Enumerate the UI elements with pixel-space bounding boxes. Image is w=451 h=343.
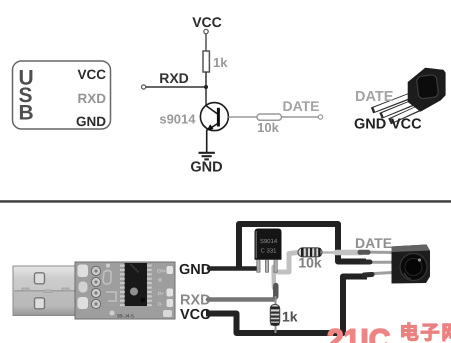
resistor R4 10k (photo) xyxy=(298,248,336,257)
USB plug shell (photo) xyxy=(13,266,75,316)
terminal RXD xyxy=(142,85,146,89)
wire RXD run (gray) xyxy=(208,287,276,300)
svg-text:VCC: VCC xyxy=(192,14,222,30)
svg-text:GND: GND xyxy=(76,114,106,129)
svg-text:电子网: 电子网 xyxy=(400,322,451,343)
transistor Q2 (photo, TO-92) xyxy=(255,229,282,273)
svg-text:D-: D- xyxy=(158,302,163,307)
terminal VCC xyxy=(204,29,208,33)
svg-text:VCC: VCC xyxy=(391,117,422,133)
USB connector block U-USB xyxy=(13,61,111,129)
wire RXD to node xyxy=(146,86,206,88)
wire R1 to collector node xyxy=(205,72,207,106)
resistor R1 1k xyxy=(203,51,209,72)
resistor R3 1k (photo) xyxy=(270,296,279,333)
svg-text:1k: 1k xyxy=(213,55,228,70)
wire VCC to R1 xyxy=(205,34,207,51)
IC U3 xyxy=(120,263,152,306)
silver wire DATE (photo) xyxy=(336,250,361,256)
svg-text:B: B xyxy=(19,102,34,125)
svg-text:21IC: 21IC xyxy=(327,324,390,343)
wire RXD end cap to Q2 xyxy=(273,286,278,297)
svg-text:GND: GND xyxy=(354,117,386,133)
svg-text:D+: D+ xyxy=(158,291,164,296)
IR receiver U2 (drawing) xyxy=(375,69,445,121)
svg-text:1k: 1k xyxy=(282,309,298,325)
svg-text:DATE: DATE xyxy=(355,89,394,105)
svg-text:GND: GND xyxy=(190,160,222,176)
terminal DATE xyxy=(318,115,322,119)
ground symbol xyxy=(199,153,215,160)
transistor Q1 s9014 xyxy=(200,103,228,152)
svg-text:RXD: RXD xyxy=(77,91,106,106)
IR receiver U4 (photo) xyxy=(360,245,430,284)
svg-text:s9014: s9014 xyxy=(159,112,196,127)
svg-text:CH+: CH+ xyxy=(157,269,166,274)
junction node RXD/collector xyxy=(204,85,208,89)
resistor R2 10k xyxy=(257,114,282,120)
svg-text:S9014: S9014 xyxy=(260,238,278,245)
wire VCC run xyxy=(206,277,367,334)
PCB (photo) xyxy=(75,262,175,320)
svg-text:99-J4-5: 99-J4-5 xyxy=(117,314,134,320)
svg-text:DATE: DATE xyxy=(282,98,319,114)
wire GND riser xyxy=(239,224,366,269)
wire GND run to Q2 emitter xyxy=(209,266,258,271)
wire base to R2 xyxy=(228,116,257,118)
silver drop Q2 collector to RXD node xyxy=(271,267,276,288)
svg-text:VCC: VCC xyxy=(77,67,106,82)
svg-text:10k: 10k xyxy=(257,120,279,135)
separator line xyxy=(0,200,451,203)
svg-text:C 331: C 331 xyxy=(260,248,277,255)
wire R2 to DATE terminal xyxy=(282,116,319,118)
svg-text:10k: 10k xyxy=(298,255,322,271)
svg-text:GND: GND xyxy=(179,262,211,278)
svg-text:DATE: DATE xyxy=(355,235,392,251)
silver jumper Q2 base to R4 xyxy=(278,253,298,273)
svg-text:RXD: RXD xyxy=(159,70,189,86)
